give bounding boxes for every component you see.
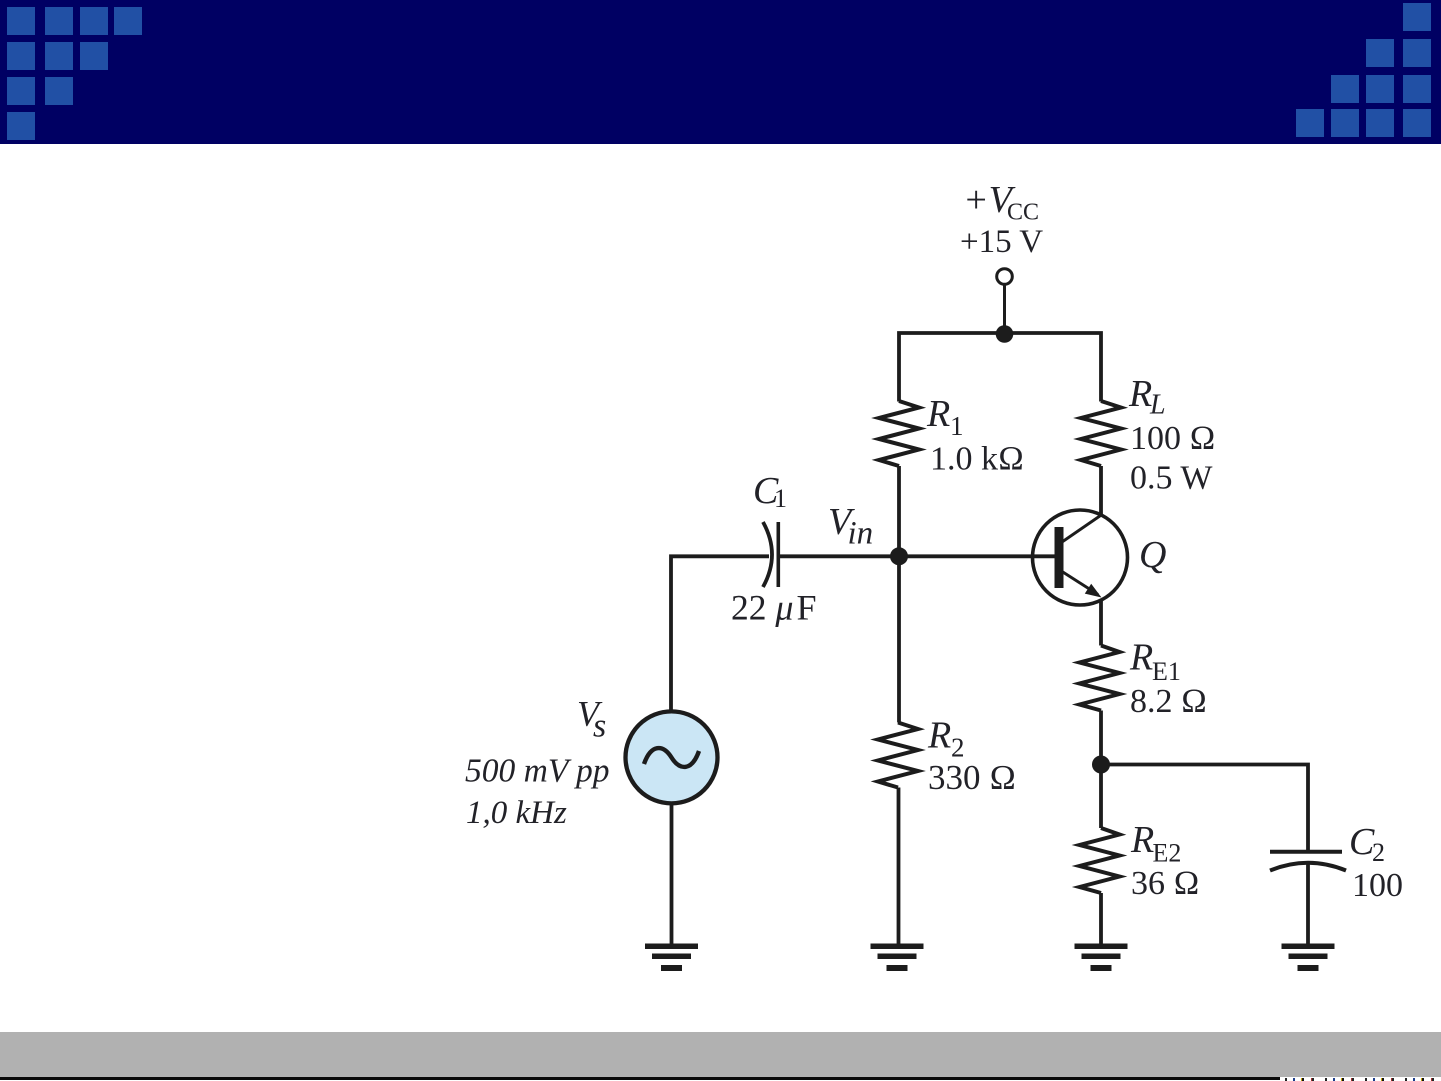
svg-text:R: R: [1130, 819, 1154, 861]
label 1.0 kΩ: [930, 441, 1024, 478]
wire R2 to ground: [897, 788, 901, 947]
resistor R1: [879, 401, 919, 466]
svg-text:2: 2: [1372, 838, 1385, 867]
svg-text:R: R: [1128, 373, 1152, 415]
label RE2: [1130, 819, 1181, 868]
label C1: [753, 470, 787, 513]
wire top rail: [899, 333, 1101, 402]
svg-text:E2: E2: [1153, 839, 1182, 868]
wire RE1 to node E: [1099, 711, 1103, 766]
label Vin: [828, 501, 873, 552]
node VCC junction: [996, 325, 1014, 343]
label +15 V: [960, 224, 1043, 260]
svg-text:22 μF: 22 μF: [731, 588, 816, 628]
label +VCC: [963, 179, 1039, 226]
wire RE2 to ground: [1099, 893, 1103, 946]
svg-text:500 mV pp: 500 mV pp: [465, 753, 610, 790]
svg-text:8.2 Ω: 8.2 Ω: [1130, 683, 1207, 720]
svg-text:1.0 kΩ: 1.0 kΩ: [930, 441, 1024, 478]
source Vs: [626, 711, 718, 803]
wire C1 left with corner to Vs: [671, 556, 769, 712]
wire bypass rail to C2: [1101, 765, 1308, 851]
svg-text:Q: Q: [1139, 534, 1166, 576]
label 330 Ω: [928, 758, 1016, 797]
transistor Q: [1033, 510, 1128, 605]
svg-text:1: 1: [950, 411, 964, 441]
svg-text:330 Ω: 330 Ω: [928, 758, 1016, 797]
label 22 uF: [731, 588, 816, 628]
wire RL to collector: [1099, 466, 1103, 515]
label 1,0 kHz: [466, 795, 567, 831]
svg-text:in: in: [848, 516, 874, 552]
svg-text:36 Ω: 36 Ω: [1131, 865, 1200, 902]
label R2: [927, 715, 965, 763]
label 8.2 Ω: [1130, 683, 1207, 720]
resistor RL: [1081, 401, 1121, 466]
wire base: [899, 554, 1056, 558]
svg-text:s: s: [593, 708, 606, 745]
header bar: [0, 0, 1441, 144]
label R1: [926, 393, 964, 441]
resistor RE2: [1080, 828, 1120, 893]
wire R1 to node Vin: [897, 466, 901, 556]
ground RE2: [1075, 944, 1128, 972]
label RE1: [1129, 637, 1181, 687]
label 100 Ω: [1130, 420, 1216, 457]
node E: [1092, 756, 1110, 774]
footer bar: [0, 1032, 1441, 1077]
svg-text:R: R: [1129, 637, 1153, 679]
node Vin: [890, 547, 908, 565]
svg-text:1: 1: [774, 484, 787, 513]
footer tiny specks: [1280, 1078, 1441, 1081]
svg-text:1,0 kHz: 1,0 kHz: [466, 795, 567, 831]
ground C2: [1282, 944, 1335, 972]
label Vs: [577, 694, 606, 745]
ground Vs: [645, 944, 698, 972]
wire node E to RE2: [1099, 765, 1103, 829]
capacitor C1: [763, 522, 778, 587]
svg-text:L: L: [1149, 390, 1166, 421]
svg-text:E1: E1: [1152, 657, 1181, 686]
label C2: [1349, 821, 1385, 867]
label 36 Ω: [1131, 865, 1200, 902]
svg-text:R: R: [926, 393, 950, 435]
wire Vs to ground: [670, 802, 674, 946]
svg-text:0.5 W: 0.5 W: [1130, 460, 1213, 497]
svg-text:100 Ω: 100 Ω: [1130, 420, 1216, 457]
VCC terminal: [997, 269, 1013, 285]
label RL: [1128, 373, 1166, 421]
label 500 mV pp: [465, 753, 610, 790]
resistor RE1: [1080, 646, 1120, 711]
ground R2: [871, 944, 924, 972]
wire C2 to ground: [1306, 863, 1310, 946]
wire C1 right to Vin: [780, 554, 899, 558]
capacitor C2: [1270, 852, 1346, 871]
wire Vin to R2: [897, 556, 901, 722]
label Q: [1139, 534, 1166, 576]
svg-text:+15 V: +15 V: [960, 224, 1043, 260]
label 0.5 W: [1130, 460, 1213, 497]
resistor R2: [878, 723, 918, 788]
label 100 (C2 value): [1352, 867, 1403, 904]
svg-text:100: 100: [1352, 867, 1403, 904]
svg-text:R: R: [927, 715, 951, 757]
svg-text:CC: CC: [1007, 200, 1039, 226]
wire emitter to RE1: [1099, 599, 1103, 646]
wire VCC stub: [1003, 285, 1006, 335]
